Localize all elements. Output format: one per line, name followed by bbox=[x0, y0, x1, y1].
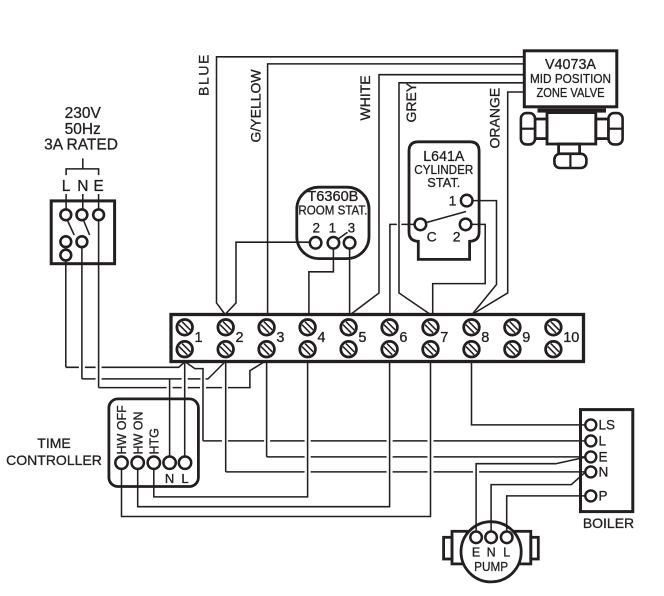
svg-text:BOILER: BOILER bbox=[583, 515, 634, 531]
svg-text:STAT.: STAT. bbox=[427, 175, 460, 190]
wire terminal 6 to time controller HW ON bbox=[138, 362, 390, 507]
wire terminal 3 to boiler E bbox=[267, 362, 586, 457]
svg-text:E: E bbox=[93, 178, 103, 195]
mains rating label bbox=[44, 105, 118, 154]
cylinder stat L641A body bbox=[409, 142, 479, 260]
boiler terminal P bbox=[585, 490, 596, 501]
pump flange right outer bbox=[531, 537, 539, 559]
svg-text:N: N bbox=[599, 465, 609, 480]
switch lever N bbox=[84, 221, 90, 236]
L N E labels bbox=[62, 178, 104, 195]
valve mounting bar bbox=[538, 108, 607, 112]
terminal 2 bbox=[218, 320, 234, 358]
terminal N top bbox=[77, 209, 88, 220]
time controller terminal HW ON bbox=[132, 457, 144, 469]
valve bottom nut bbox=[554, 154, 586, 168]
wire blue: valve to terminal 2 bbox=[217, 57, 524, 315]
svg-text:PUMP: PUMP bbox=[474, 559, 508, 574]
wire cylinder stat C to terminal 6 bbox=[390, 224, 415, 314]
wire pump E to boiler E bbox=[476, 457, 585, 531]
svg-text:2: 2 bbox=[236, 330, 244, 346]
pump labels bbox=[472, 546, 510, 575]
svg-text:E: E bbox=[472, 546, 480, 560]
svg-text:L: L bbox=[181, 471, 188, 486]
valve actuator body bbox=[547, 113, 596, 144]
wire green/yellow: valve to terminal 3 bbox=[268, 64, 523, 315]
terminal numbers bbox=[195, 330, 580, 346]
svg-text:L: L bbox=[599, 434, 607, 449]
terminal 8 bbox=[464, 320, 480, 358]
cylinder stat terminal C bbox=[415, 219, 427, 231]
cylinder stat switch lever bbox=[427, 212, 467, 223]
svg-text:6: 6 bbox=[399, 330, 407, 346]
room stat terminal 2 bbox=[310, 237, 322, 249]
bracket under rating label bbox=[66, 158, 99, 175]
svg-text:L: L bbox=[503, 546, 510, 560]
svg-text:P: P bbox=[599, 489, 608, 504]
terminal 7 bbox=[423, 320, 439, 358]
svg-text:9: 9 bbox=[522, 330, 530, 346]
wire room stat 2 to terminal 2 bbox=[225, 242, 310, 314]
boiler terminal labels bbox=[599, 418, 616, 504]
valve left arm bbox=[535, 119, 547, 139]
pump flange left outer bbox=[444, 537, 452, 559]
svg-text:3: 3 bbox=[276, 330, 284, 346]
pump flange left inner bbox=[452, 531, 467, 564]
wire grey: valve to terminal 7 bbox=[399, 83, 523, 315]
valve right nut bbox=[609, 113, 623, 144]
svg-text:LS: LS bbox=[599, 418, 616, 433]
svg-text:N: N bbox=[165, 471, 174, 486]
room stat terminal 1 bbox=[328, 237, 340, 249]
svg-text:50Hz: 50Hz bbox=[65, 121, 101, 138]
valve left nut bbox=[521, 113, 535, 144]
pump terminal L bbox=[501, 532, 513, 544]
svg-text:N: N bbox=[487, 546, 496, 560]
svg-text:L: L bbox=[62, 178, 71, 195]
wire mains N bus to terminal 2 bbox=[82, 247, 225, 379]
wire pump L to boiler P bbox=[507, 496, 586, 532]
boiler terminal LS bbox=[585, 419, 596, 430]
svg-text:MID POSITION: MID POSITION bbox=[530, 71, 611, 86]
wire pump N to boiler N bbox=[491, 472, 585, 531]
wire terminal 1 branch to boiler L bbox=[185, 362, 586, 441]
labels N L bbox=[165, 471, 189, 486]
terminal E top bbox=[93, 209, 104, 220]
terminal 4 bbox=[300, 320, 316, 358]
wire room stat 1 to terminal 4 bbox=[309, 249, 334, 315]
svg-text:10: 10 bbox=[563, 330, 579, 346]
pump body circle bbox=[461, 522, 521, 582]
svg-text:ROOM STAT.: ROOM STAT. bbox=[298, 203, 367, 218]
time controller terminal L bbox=[179, 457, 191, 469]
room stat T6360B body bbox=[297, 187, 369, 258]
boiler terminal E bbox=[585, 451, 596, 462]
svg-text:1: 1 bbox=[329, 221, 337, 236]
svg-text:8: 8 bbox=[481, 330, 489, 346]
terminal L out bbox=[60, 250, 71, 261]
svg-text:230V: 230V bbox=[65, 105, 102, 122]
wire white: valve to terminal 5 bbox=[351, 75, 524, 315]
terminal 1 bbox=[177, 320, 193, 358]
svg-text:C: C bbox=[427, 229, 437, 245]
terminal N bottom bbox=[77, 236, 88, 247]
svg-text:WHITE: WHITE bbox=[357, 75, 373, 120]
wire terminal 7 to time controller HW OFF bbox=[122, 362, 431, 517]
wire E label to switch bbox=[98, 194, 100, 209]
room stat terminal 3 bbox=[344, 237, 356, 249]
svg-text:HW ON: HW ON bbox=[131, 411, 145, 454]
boiler box bbox=[581, 410, 633, 512]
cylinder stat terminal 1 bbox=[461, 195, 473, 207]
time controller terminal HW OFF bbox=[115, 457, 127, 469]
svg-text:ORANGE: ORANGE bbox=[487, 88, 503, 149]
pump flange right inner bbox=[515, 531, 531, 564]
room stat switch lever bbox=[338, 232, 348, 239]
wire mains N branch to time controller N bbox=[169, 379, 171, 457]
svg-text:2: 2 bbox=[312, 221, 320, 236]
svg-text:1: 1 bbox=[449, 193, 457, 209]
time controller terminal HTG bbox=[148, 457, 160, 469]
terminal 6 bbox=[382, 320, 398, 358]
wire cylinder stat 1 to terminal 8 bbox=[472, 201, 497, 315]
time controller label bbox=[6, 435, 102, 468]
pump terminal N bbox=[485, 532, 497, 544]
svg-text:E: E bbox=[599, 450, 608, 465]
wire orange: valve to terminal 8 bbox=[472, 92, 523, 315]
wire mains E to terminal 3 bbox=[99, 220, 264, 387]
valve right arm bbox=[596, 119, 609, 139]
wire L label to switch bbox=[65, 194, 67, 209]
time controller box bbox=[109, 399, 198, 487]
wire room stat 3 to terminal 5 bbox=[349, 249, 351, 315]
zone valve box V4073A bbox=[524, 51, 617, 107]
screw slots bbox=[179, 322, 559, 355]
terminal 9 bbox=[505, 320, 521, 358]
svg-text:3: 3 bbox=[348, 221, 356, 236]
terminal strip bbox=[171, 315, 584, 362]
svg-text:HW OFF: HW OFF bbox=[115, 405, 129, 455]
svg-text:2: 2 bbox=[453, 229, 461, 245]
terminal 5 bbox=[341, 320, 357, 358]
wire cylinder stat 2 to terminal 7 bbox=[433, 224, 486, 314]
valve bottom stem bbox=[559, 144, 580, 154]
svg-text:ZONE VALVE: ZONE VALVE bbox=[537, 85, 605, 100]
mains isolator switch box bbox=[51, 201, 114, 264]
terminal L top bbox=[60, 209, 71, 220]
terminal 10 bbox=[546, 320, 562, 358]
svg-text:TIME: TIME bbox=[37, 435, 70, 451]
wire terminal 2 to boiler N bbox=[226, 362, 586, 472]
wire terminal 8 to boiler LS bbox=[472, 362, 586, 425]
wire mains L to terminal 1 bbox=[66, 261, 185, 368]
svg-text:3A RATED: 3A RATED bbox=[44, 137, 118, 154]
svg-text:BLUE: BLUE bbox=[195, 53, 211, 96]
svg-text:5: 5 bbox=[358, 330, 366, 346]
svg-text:N: N bbox=[77, 178, 88, 195]
svg-text:CONTROLLER: CONTROLLER bbox=[6, 452, 102, 468]
svg-text:GREY: GREY bbox=[403, 82, 419, 122]
boiler terminal L bbox=[585, 435, 596, 446]
svg-text:7: 7 bbox=[440, 330, 448, 346]
switch lever L bbox=[68, 221, 75, 236]
terminal 3 bbox=[259, 320, 275, 358]
pump terminal E bbox=[470, 532, 482, 544]
wire N label to switch bbox=[82, 194, 84, 209]
svg-text:1: 1 bbox=[195, 330, 203, 346]
time controller terminal N bbox=[163, 457, 175, 469]
wire terminal 1 to time controller L bbox=[184, 362, 186, 457]
cylinder stat terminal 2 bbox=[460, 219, 472, 231]
wire terminal 4 to time controller HTG bbox=[154, 362, 308, 497]
terminal L bottom bbox=[60, 236, 71, 247]
svg-text:HTG: HTG bbox=[147, 428, 161, 454]
boiler terminal N bbox=[585, 466, 596, 477]
svg-text:4: 4 bbox=[317, 330, 325, 346]
svg-text:G/YELLOW: G/YELLOW bbox=[248, 69, 264, 143]
